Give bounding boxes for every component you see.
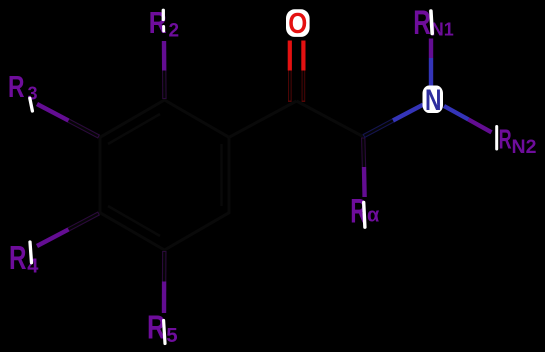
bond R3 to ring [37, 104, 99, 137]
white halo behind N [423, 86, 444, 114]
label R2 [149, 5, 179, 42]
svg-text:N: N [425, 84, 442, 117]
aromatic inner line right [220, 144, 223, 206]
aromatic inner line upper-left [108, 114, 160, 144]
bond alpha carbon to R-alpha [363, 138, 364, 198]
white stub at R5 [164, 321, 165, 344]
white stub at R3 [30, 98, 33, 111]
white stub at R-alpha [364, 203, 365, 228]
bond R2 to ring [162, 41, 167, 99]
label RN2 [499, 124, 537, 158]
bond alpha carbon to N [364, 105, 424, 137]
svg-text:α: α [367, 205, 380, 227]
bond carbonyl carbon to alpha carbon (faint) [297, 101, 364, 137]
bond N to RN2 [444, 106, 492, 132]
aromatic inner line lower-left [108, 206, 160, 236]
label R3 [8, 69, 38, 104]
white stub at R2 [162, 10, 165, 19]
svg-text:N1: N1 [431, 19, 454, 39]
bond N to RN1 [429, 39, 433, 88]
oxygen-side red halves [290, 41, 304, 71]
label R5 [147, 310, 178, 348]
svg-text:2: 2 [169, 21, 180, 42]
white halo behind O [286, 9, 310, 37]
carbon-side dark halves (tube look) [290, 71, 304, 103]
svg-text:R: R [499, 124, 512, 155]
C=O double bond [290, 41, 304, 103]
svg-text:5: 5 [166, 324, 177, 347]
white stub at RN2 [495, 127, 498, 150]
benzene ring skeleton (faint carbon bonds) [100, 100, 229, 250]
bond ring to carbonyl carbon (faint) [229, 101, 297, 137]
label R4 [9, 239, 39, 278]
svg-text:R: R [9, 239, 27, 276]
label RN1 [413, 4, 454, 42]
svg-text:N2: N2 [512, 136, 537, 158]
svg-text:4: 4 [27, 256, 39, 278]
svg-text:R: R [8, 69, 25, 104]
bond R5 to ring [162, 251, 167, 313]
svg-text:R: R [413, 4, 431, 42]
white stub at RN1 [431, 11, 432, 34]
bond R4 to ring [37, 213, 99, 246]
white stub at R4 [30, 242, 32, 263]
svg-text:O: O [288, 8, 307, 40]
label R-alpha [350, 193, 380, 231]
